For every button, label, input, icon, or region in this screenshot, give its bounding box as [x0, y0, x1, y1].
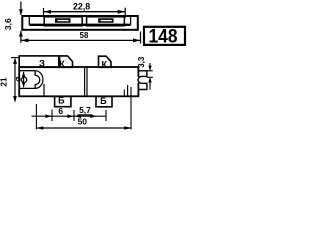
left slot width mini-dimension [23, 72, 25, 87]
svg-text:Б: Б [100, 96, 107, 106]
left mounting hole [21, 77, 26, 82]
extension line right slot centre [130, 87, 132, 130]
svg-text:50: 50 [78, 117, 88, 127]
svg-text:К: К [102, 59, 108, 69]
svg-text:58: 58 [80, 31, 89, 40]
extension line base tab left [51, 110, 53, 122]
collector tab K 1 [60, 56, 73, 67]
dimension 22,8 line [44, 11, 126, 13]
svg-text:Б: Б [58, 96, 65, 106]
emitter lead tab (З) top-left [19, 56, 59, 67]
svg-text:5,7: 5,7 [79, 105, 91, 115]
svg-text:3,3: 3,3 [137, 56, 146, 68]
dimension 3,3 lower segment [149, 78, 151, 90]
internal keyway hidden line left [43, 84, 45, 96]
line A arrow tip right at 96.8 [90, 114, 97, 118]
dimension 3,3 extension ticks [147, 70, 153, 72]
svg-text:21: 21 [0, 77, 8, 86]
svg-text:3,6: 3,6 [3, 18, 13, 30]
side view: right cap window [87, 17, 125, 26]
left slot end wall and small keyway arc [35, 71, 40, 89]
dimension 22,8 left tick [43, 8, 45, 17]
svg-text:К: К [59, 59, 65, 69]
extension line between 6 and 5,7 [73, 110, 75, 121]
dimension 3,6 lower line with up arrow [20, 31, 22, 43]
base tab B 2 [96, 96, 112, 107]
right slot gap in body edge [137, 77, 139, 83]
bottom view: centre double line [84, 67, 86, 96]
svg-text:З: З [39, 58, 45, 69]
left mounting slot bottom line [20, 87, 35, 89]
dimension 21 top tick [11, 57, 20, 59]
right mounting ear with slot [138, 71, 147, 90]
dimension line B (50) [36, 127, 131, 129]
collector tab K 2 [99, 56, 112, 67]
side view: right stub [130, 17, 132, 25]
line A arrow tip left at 74.4 [74, 114, 81, 118]
dimension 58 left arrow [21, 38, 28, 42]
dimension 22,8 right tick [124, 8, 126, 18]
left mounting slot top line [20, 70, 35, 72]
side view: left stub [28, 17, 30, 25]
figure number box 148 [144, 27, 185, 45]
dimension 58 right extension tick [140, 32, 142, 44]
dimension 22,8 left arrow [44, 10, 51, 14]
svg-text:22,8: 22,8 [73, 2, 90, 12]
side view: left cap window [44, 17, 82, 26]
dimension 58 right arrow [133, 38, 140, 42]
dimension 3,3 upper segment [149, 63, 151, 70]
dimension 21 line [14, 59, 16, 102]
side view: flange outer rectangle [22, 16, 138, 30]
side view: left lead bar [55, 18, 71, 23]
line A arrow tip right at 74 [67, 114, 74, 118]
left slot big end arc [35, 71, 43, 89]
base tab B 1 [55, 96, 71, 106]
dimension line A (6 / 5,7) [32, 115, 107, 117]
dimension 3,6 upper line with down arrow [20, 2, 22, 15]
line A arrow tip right at 52 [45, 114, 52, 118]
internal keyway hidden lines right [123, 90, 125, 97]
bottom view: body outline [19, 67, 138, 96]
not-to-scale underline of 5,7 [78, 114, 93, 116]
svg-text:6: 6 [58, 106, 63, 116]
side view: right lead bar [98, 18, 113, 23]
svg-text:148: 148 [149, 26, 178, 48]
side view: middle thick line [29, 24, 130, 26]
dimension 58 line [21, 39, 141, 41]
extension line right of 5,7 [105, 110, 107, 121]
extension line at slot centre left [35, 104, 37, 130]
dimension 22,8 right arrow [118, 10, 125, 14]
svg-text:Ø: Ø [16, 76, 23, 81]
